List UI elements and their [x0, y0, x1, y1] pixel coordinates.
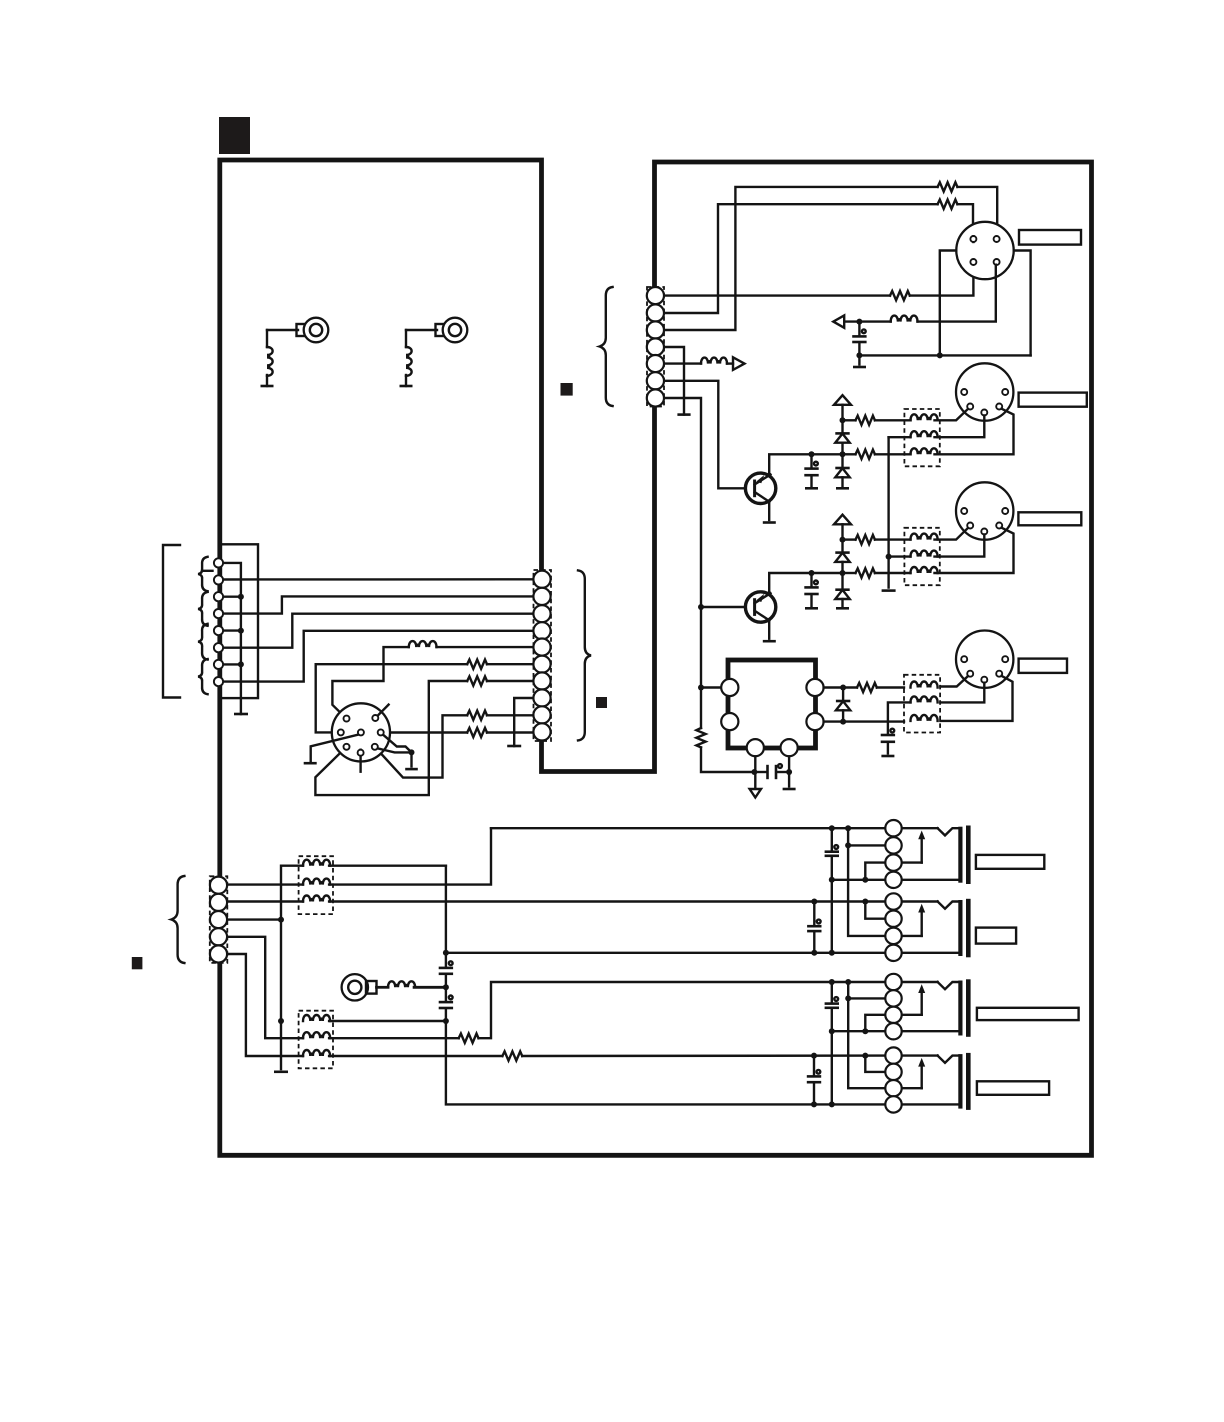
FL4 coil a — [274, 860, 446, 1072]
jack JA1 contacts — [885, 820, 958, 888]
J2 shield row — [859, 352, 1030, 358]
resistor R10 — [843, 535, 911, 544]
power symbol (open triangle up) block2 — [834, 515, 851, 540]
jack1 ground row — [832, 879, 959, 881]
pads P1-P10 dashed outline — [534, 570, 552, 741]
capacitor C1 (electrolytic) — [852, 319, 866, 367]
resistor R4 on pad10 wire — [389, 728, 533, 737]
capacitor C10 (jack3 coupling) — [825, 979, 839, 1107]
J4 pin L — [961, 508, 967, 514]
capacitor C8 (jack1 coupling) — [825, 825, 839, 956]
diode D3 — [835, 537, 849, 573]
section marker square bottom-left — [132, 957, 143, 969]
jack1 pad3 link — [862, 863, 885, 883]
FL1 coil c — [911, 448, 938, 454]
FL4 coil b — [227, 828, 491, 884]
resistor R9 — [843, 450, 911, 459]
section marker square near CN brace — [561, 383, 573, 396]
power symbol (open triangle up) block1 — [834, 395, 851, 420]
J2 pin BR — [994, 259, 1000, 265]
wire padQ6 to Q1 base — [664, 381, 746, 489]
jack3 pad2 link — [845, 979, 885, 1088]
PCB outline (main board) — [220, 160, 1092, 1155]
resistor R3 on pad9 wire — [375, 711, 534, 778]
label box JA2 — [976, 928, 1016, 944]
pads Q1-Q7 (7 circles) — [647, 287, 664, 407]
FL4 coil c — [227, 896, 894, 902]
J1 pin L — [338, 729, 344, 735]
wire CN1 pin2 to pad 1 — [223, 578, 534, 581]
label box J5 — [1019, 659, 1067, 673]
J1 pin UR with stub — [372, 705, 388, 721]
bus row to jack2 ground — [446, 952, 894, 954]
ground chain vertical with C6/C7 — [439, 866, 894, 1105]
J5 pin R — [1002, 656, 1008, 662]
bottom: filter FL4 dashed box — [299, 856, 333, 914]
ground chain vertical (FL1b/FL2b) — [882, 437, 896, 590]
small brace pair 4 — [198, 659, 208, 694]
label box J4 — [1018, 512, 1081, 525]
jack1 pad2 link — [845, 825, 885, 936]
label box JA1 — [976, 855, 1044, 869]
sub-board module outline — [728, 660, 816, 748]
bus row jack1 top — [491, 827, 894, 829]
ring terminal lug E2 — [406, 318, 467, 343]
CN1 pins (8) — [214, 558, 223, 686]
bracket (left group) — [163, 545, 180, 698]
ring terminal lug E3 — [342, 974, 388, 1000]
J2 pin TL — [970, 236, 976, 242]
jack JA3 body bars — [958, 979, 970, 1037]
connector CN1 body (left 8-pin header) — [220, 544, 258, 698]
jack JA4 body bars — [958, 1053, 970, 1110]
small brace pair 1 — [198, 557, 208, 591]
filter FL2 dashed box — [904, 528, 939, 585]
section marker square top-left — [219, 117, 250, 154]
wire CN1 pin8 to pad 4 — [223, 631, 534, 682]
module pads (6 circles) — [721, 679, 823, 756]
CN2 pads (5 circles) dashed outline — [210, 876, 228, 963]
ground bar below C4 — [783, 756, 796, 789]
jack3 ground row — [832, 1030, 959, 1032]
filter FL3 dashed box — [904, 675, 940, 733]
FL1 coil b — [889, 431, 938, 437]
J4 pin LR — [996, 523, 1002, 529]
jack JA2 contacts — [885, 893, 958, 961]
diode D5 — [836, 688, 850, 722]
J5 pin BC — [981, 677, 987, 683]
ring terminal lug E1 — [267, 318, 328, 343]
J4 wires — [935, 528, 1014, 573]
inductor L1 (ring E1 ground lead) — [261, 330, 274, 386]
resistor R13 (module right-top) — [824, 683, 904, 692]
resistor R8 — [843, 416, 911, 425]
J2 pin TR — [994, 236, 1000, 242]
wire CN1 pin4 to pad 2 — [223, 596, 534, 613]
FL2 coil c — [911, 567, 938, 573]
small brace pair 2 — [198, 592, 208, 626]
diode D2 — [835, 451, 849, 488]
jack3 pad3 link — [862, 1015, 885, 1034]
capacitor C4 (horizontal electrolytic) — [751, 756, 792, 779]
J3 pin BC — [981, 410, 987, 416]
label box J3 — [1019, 393, 1087, 407]
FL1 coil a — [911, 414, 938, 420]
FL5 coil a — [303, 1015, 446, 1021]
J4 pin BC — [981, 529, 987, 535]
J3 pin L — [961, 389, 967, 395]
resistor R12 (vertical, on pad Q7 drop) — [696, 688, 754, 773]
transistor TR2 (PNP) — [745, 573, 842, 641]
inductor L2 (ring E2 ground lead) — [400, 330, 413, 386]
chassis ground (open arrow down) — [750, 772, 761, 798]
J5 wires — [940, 676, 1012, 721]
resistor R11 — [843, 568, 911, 577]
label box JA3 — [977, 1008, 1079, 1020]
J1 center/R pin common to ground — [376, 733, 418, 769]
FL5 coil c + resistor R15 — [303, 1050, 894, 1061]
DIN connector J3 (5-pin) body — [956, 363, 1013, 420]
J5 pin LR — [996, 671, 1002, 677]
inductor L3 on pad5 wire — [332, 641, 533, 719]
FL2 coil b — [889, 551, 938, 557]
diode D1 — [835, 417, 849, 454]
diode D4 — [835, 570, 849, 608]
jack JA4 contacts — [885, 1047, 958, 1112]
wire padQ7 down to sub-board — [664, 398, 746, 688]
jack JA2 body bars — [958, 899, 970, 958]
FL3 coil a — [911, 682, 938, 688]
ground bus of CN1 — [223, 563, 248, 714]
jack JA3 contacts — [885, 974, 958, 1040]
plus tick — [202, 570, 213, 572]
J2 shell right wire — [1014, 251, 1031, 356]
capacitor C3 (electrolytic) — [804, 570, 818, 608]
resistor R2 on pad7 wire — [315, 676, 533, 795]
transistor TR1 (PNP) — [745, 454, 842, 522]
small brace pair 3 — [198, 624, 208, 660]
J2 pin BL — [970, 259, 976, 265]
label box JA4 — [977, 1081, 1049, 1095]
CN2 pad5 wire — [227, 954, 303, 1056]
brace for pads Q1-Q7 — [600, 287, 613, 406]
J4 pin LL — [967, 523, 973, 529]
section marker square right of 10-pin brace — [596, 697, 607, 708]
capacitor C11 (jack4 coupling) — [807, 1053, 821, 1108]
brace for pads P1-P10 — [578, 570, 591, 740]
J5 pin L — [961, 656, 967, 662]
CN2 pads (5 circles) — [210, 877, 227, 963]
pads P1-P10 (10 circles) — [533, 571, 550, 741]
J1 pin center — [358, 729, 364, 735]
brace for CN2 pads — [171, 876, 184, 963]
jack JA1 body bars — [958, 826, 970, 885]
jack4 pad2 link — [862, 1053, 885, 1072]
capacitor C2 (electrolytic) — [804, 451, 818, 488]
J2 shell left wire — [940, 251, 957, 356]
J4 pin R — [1002, 508, 1008, 514]
J5 pin LL — [967, 671, 973, 677]
FL3 coil b — [888, 696, 938, 733]
J1 pin LR — [372, 744, 378, 750]
inductor L6 (ring E3) — [388, 981, 446, 987]
ground at padQ4 — [664, 347, 691, 415]
J3 wires — [935, 409, 1014, 455]
wire CN1 pin6 to pad 3 — [223, 614, 534, 648]
J1 LL ground stub — [304, 734, 363, 764]
J3 pin LR — [996, 404, 1002, 410]
capacitor C5 (electrolytic, FL3b to gnd) — [881, 729, 895, 756]
resistor R6 on padQ2 row — [664, 200, 973, 313]
DIN connector J5 (5-pin) body — [956, 631, 1013, 688]
module pad left-top wire — [698, 685, 721, 691]
resistor R7 on padQ3 row — [664, 182, 997, 330]
capacitor C9 (jack2 coupling) — [807, 899, 821, 956]
J1 pin bottom with stub — [358, 750, 364, 772]
filter FL5 dashed box — [299, 1011, 333, 1069]
DIN connector J4 (5-pin) body — [956, 482, 1013, 539]
J3 pin LL — [967, 404, 973, 410]
jack2 pad2 link — [862, 899, 885, 919]
inductor L4 with arrow (padQ5) — [664, 357, 745, 370]
pads Q1-Q7 dashed outline (right box) — [647, 287, 664, 407]
inductor L5 with arrow (J2 pin BR row) — [833, 265, 996, 328]
CN2 pad4 wire — [227, 937, 303, 1038]
module right-bottom wire — [824, 719, 904, 725]
CN2 pad3 stub — [227, 918, 281, 920]
resistor R5 on padQ1 row — [664, 265, 973, 301]
FL5 coil b + resistor R14 — [303, 982, 894, 1043]
ground at pad8 — [507, 698, 533, 746]
label box J2 — [1019, 230, 1081, 245]
DIN connector J2 (4-pin) body — [956, 222, 1013, 279]
J1 pin LL — [344, 744, 350, 750]
filter FL1 dashed box — [904, 409, 939, 466]
J1 pin R — [378, 729, 384, 735]
J1 pin UL — [344, 716, 350, 722]
FL2 coil a — [911, 534, 938, 540]
resistor R1 on pad6 wire — [316, 660, 534, 733]
J3 pin R — [1002, 389, 1008, 395]
FL3 coil c — [911, 715, 938, 721]
DIN connector J1 (8-pin) body — [332, 703, 390, 761]
